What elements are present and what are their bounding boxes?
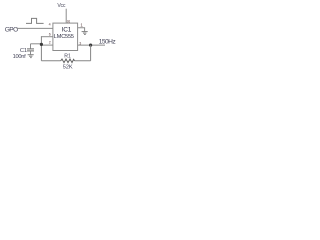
wire GPO to pin 4: [17, 27, 53, 29]
svg-text:8: 8: [67, 19, 70, 24]
wire threshold pin 6: [41, 36, 53, 38]
wire C1 to junction: [31, 43, 42, 45]
svg-text:2: 2: [49, 41, 51, 45]
pulse waveform annotation: [26, 18, 44, 23]
svg-text:6: 6: [49, 32, 51, 36]
wire junction to pin 2: [41, 44, 53, 46]
ground (C1): [28, 55, 34, 58]
svg-text:1: 1: [80, 22, 83, 27]
wire pin 1 to ground: [78, 28, 85, 32]
junction node dot: [40, 43, 43, 46]
svg-text:LMC555: LMC555: [54, 34, 74, 40]
resistor R1: [61, 59, 75, 63]
svg-text:GPO: GPO: [5, 27, 18, 34]
IC IC1 LMC555 timer: [53, 23, 78, 50]
ground (pin 1): [82, 32, 88, 35]
svg-text:100nf: 100nf: [13, 54, 27, 60]
svg-text:R1: R1: [64, 54, 71, 60]
wire output feedback vertical: [90, 45, 92, 61]
capacitor C1: [27, 44, 34, 55]
svg-text:IC1: IC1: [62, 27, 72, 34]
svg-text:3: 3: [79, 42, 81, 46]
svg-text:4: 4: [49, 23, 51, 27]
svg-text:52K: 52K: [63, 65, 73, 71]
wire bottom right segment: [75, 60, 91, 62]
output node dot: [89, 44, 92, 47]
wire bottom left segment: [41, 60, 60, 62]
wire output pin 3: [78, 44, 105, 46]
svg-text:Vcc: Vcc: [57, 3, 65, 9]
wire junction vertical: [40, 36, 42, 61]
svg-text:150Hz: 150Hz: [99, 39, 116, 46]
wire Vcc to pin 8: [65, 9, 67, 23]
